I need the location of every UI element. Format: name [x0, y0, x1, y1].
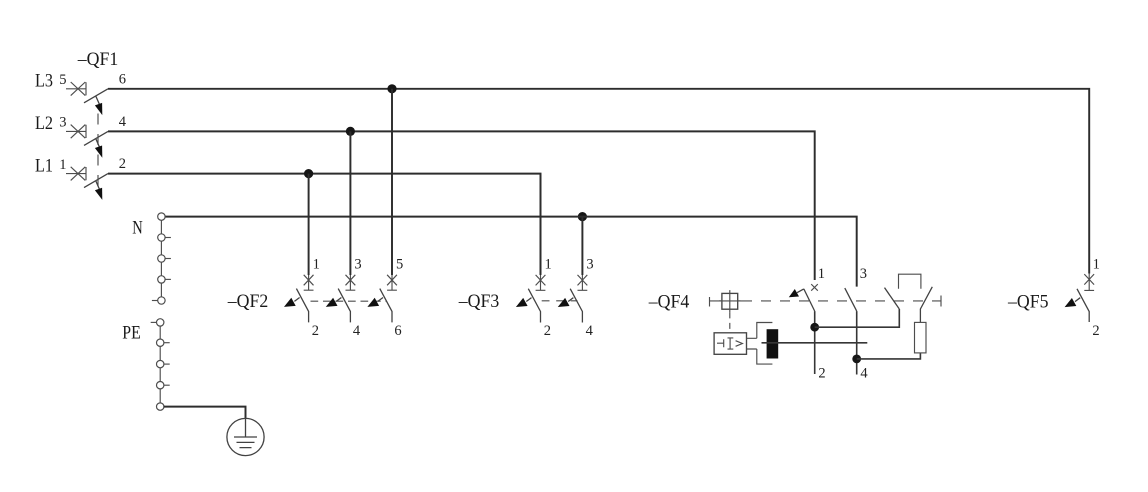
- QF4 pole 2 blade: [845, 288, 857, 311]
- wire QF4 pin3 lower: [856, 311, 858, 374]
- svg-text:L2: L2: [35, 113, 53, 134]
- svg-text:3: 3: [586, 257, 593, 273]
- QF4 sensor fork: [757, 323, 773, 365]
- N bus riser: [160, 220, 162, 296]
- junction on L3: [387, 84, 396, 93]
- junction QF4 pole1: [810, 323, 819, 332]
- svg-text:2: 2: [1092, 323, 1099, 339]
- QF4 linkage dashed: [710, 300, 753, 302]
- wire L3 to QF2 pin5: [391, 89, 393, 275]
- svg-text:4: 4: [586, 323, 594, 339]
- wire L3 stub: [66, 88, 86, 90]
- earth electrode symbol: [227, 418, 264, 455]
- QF4 test contact blade: [920, 287, 932, 323]
- QF1 linkage dashed: [97, 114, 99, 189]
- wire L1 stub: [66, 173, 86, 175]
- QF1 arrow pole 3-4: [96, 139, 100, 148]
- svg-text:1: 1: [1093, 256, 1100, 272]
- svg-text:4: 4: [119, 114, 127, 130]
- QF1 pole 1-2 blade: [84, 174, 108, 188]
- wire QF4 pin1 lower: [814, 311, 816, 374]
- svg-text:–QF1: –QF1: [77, 49, 118, 70]
- wire L3 bus: [108, 89, 1089, 274]
- QF1 pole 5-6 blade: [84, 89, 108, 103]
- QF5 arrow: [1075, 298, 1080, 302]
- svg-text:L3: L3: [35, 71, 53, 92]
- wire L1 bus: [108, 174, 541, 274]
- QF3 pole 1-2 contact cross: [536, 275, 546, 290]
- QF2 pole 3-4 contact cross: [346, 275, 356, 290]
- QF4 pole 1 contact cross: [811, 284, 818, 291]
- svg-text:6: 6: [119, 71, 126, 87]
- wire pole1 to RCD contact: [815, 309, 900, 327]
- wire pole2 to resistor: [857, 353, 921, 359]
- QF4 RCD contact blade: [885, 288, 900, 309]
- N terminal 5: [158, 297, 165, 304]
- svg-text:1: 1: [545, 257, 552, 273]
- QF3 pole 1-2 blade: [528, 289, 540, 323]
- QF4 RCD sensing bracket: [899, 274, 921, 289]
- PE terminal 3: [157, 360, 164, 367]
- N terminal 4: [158, 276, 165, 283]
- svg-text:5: 5: [396, 256, 403, 272]
- svg-text:–QF4: –QF4: [648, 292, 690, 313]
- QF2 arrow pole 3-4: [336, 298, 341, 302]
- QF4 release I> symbol: [717, 338, 742, 349]
- PE terminal 2: [157, 339, 164, 346]
- wire L1 to QF2 pin1: [308, 174, 310, 275]
- QF2 pole 5-6 blade: [380, 289, 392, 323]
- QF4 mechanism box: [722, 293, 738, 309]
- PE terminal 5: [157, 403, 164, 410]
- svg-text:2: 2: [312, 323, 319, 339]
- svg-text:–QF2: –QF2: [227, 291, 268, 312]
- N terminal 2: [158, 234, 165, 241]
- svg-text:–QF5: –QF5: [1007, 292, 1048, 313]
- N terminal 1: [158, 213, 165, 220]
- QF3 pole 3-4 contact cross: [578, 275, 588, 290]
- svg-text:4: 4: [353, 323, 361, 339]
- QF4 current transformer core: [767, 329, 779, 358]
- svg-text:3: 3: [59, 115, 66, 131]
- QF1 arrow pole 5-6: [96, 96, 100, 105]
- svg-text:PE: PE: [122, 323, 141, 344]
- QF3 linkage dashed: [542, 300, 578, 302]
- QF1 pole 3-4 contact cross: [71, 125, 86, 139]
- resistor R test: [915, 322, 927, 353]
- svg-text:2: 2: [544, 323, 551, 339]
- svg-text:3: 3: [354, 256, 361, 272]
- svg-text:L1: L1: [35, 155, 53, 176]
- junction QF4 pole2: [852, 355, 861, 364]
- svg-text:1: 1: [59, 157, 66, 173]
- junction on N: [578, 212, 587, 221]
- QF1 pole 5-6 contact cross: [71, 82, 86, 96]
- svg-text:2: 2: [119, 156, 126, 172]
- N terminal 3: [158, 255, 165, 262]
- QF2 arrow pole 1-2: [294, 298, 299, 302]
- QF4 mechanism dashed drop: [729, 312, 731, 332]
- PE terminal 1: [157, 319, 164, 326]
- QF4 overcurrent release box: [714, 333, 746, 355]
- QF4 release to sensor link: [746, 338, 757, 349]
- svg-text:3: 3: [860, 266, 867, 282]
- wire L1 to QF3 pin1: [540, 174, 542, 275]
- QF4 pole 1 blade: [804, 289, 815, 311]
- wire L2 bus: [108, 131, 815, 280]
- wire PE to earth: [164, 407, 246, 419]
- PE bus riser: [159, 326, 161, 403]
- QF5 blade: [1077, 289, 1089, 322]
- QF2 arrow pole 5-6: [378, 298, 383, 302]
- PE terminal 4: [157, 382, 164, 389]
- svg-text:6: 6: [394, 323, 401, 339]
- QF1 arrow pole 1-2: [96, 181, 100, 190]
- wire N bus: [165, 217, 857, 287]
- svg-text:2: 2: [818, 366, 825, 382]
- wire N to QF3 pin3: [581, 217, 583, 275]
- wire CT secondary: [762, 342, 868, 344]
- svg-text:1: 1: [313, 256, 320, 272]
- svg-text:–QF3: –QF3: [458, 291, 499, 312]
- wire L2 to QF2 pin3: [349, 131, 351, 275]
- QF1 pole 3-4 blade: [84, 131, 108, 145]
- wire L2 stub: [66, 130, 86, 132]
- QF2 pole 5-6 contact cross: [387, 275, 397, 290]
- QF5 contact cross: [1084, 274, 1094, 291]
- QF3 arrow pole 3-4: [568, 298, 573, 302]
- QF4 pole 1 arrow: [797, 289, 804, 293]
- QF2 linkage dashed: [311, 300, 388, 302]
- QF2 pole 1-2 blade: [296, 289, 308, 323]
- junction on L2: [346, 127, 355, 136]
- svg-text:4: 4: [860, 366, 868, 382]
- QF2 pole 1-2 contact cross: [304, 275, 314, 290]
- QF2 pole 3-4 blade: [338, 289, 350, 323]
- QF3 arrow pole 1-2: [526, 298, 531, 302]
- svg-text:1: 1: [818, 266, 825, 282]
- junction on L1: [304, 169, 313, 178]
- svg-text:N: N: [132, 218, 143, 239]
- QF3 pole 3-4 blade: [570, 289, 582, 323]
- QF4 linkage left end tick: [709, 297, 711, 307]
- QF4 linkage right end tick: [940, 296, 942, 307]
- QF1 pole 1-2 contact cross: [71, 167, 86, 181]
- svg-text:5: 5: [59, 72, 66, 88]
